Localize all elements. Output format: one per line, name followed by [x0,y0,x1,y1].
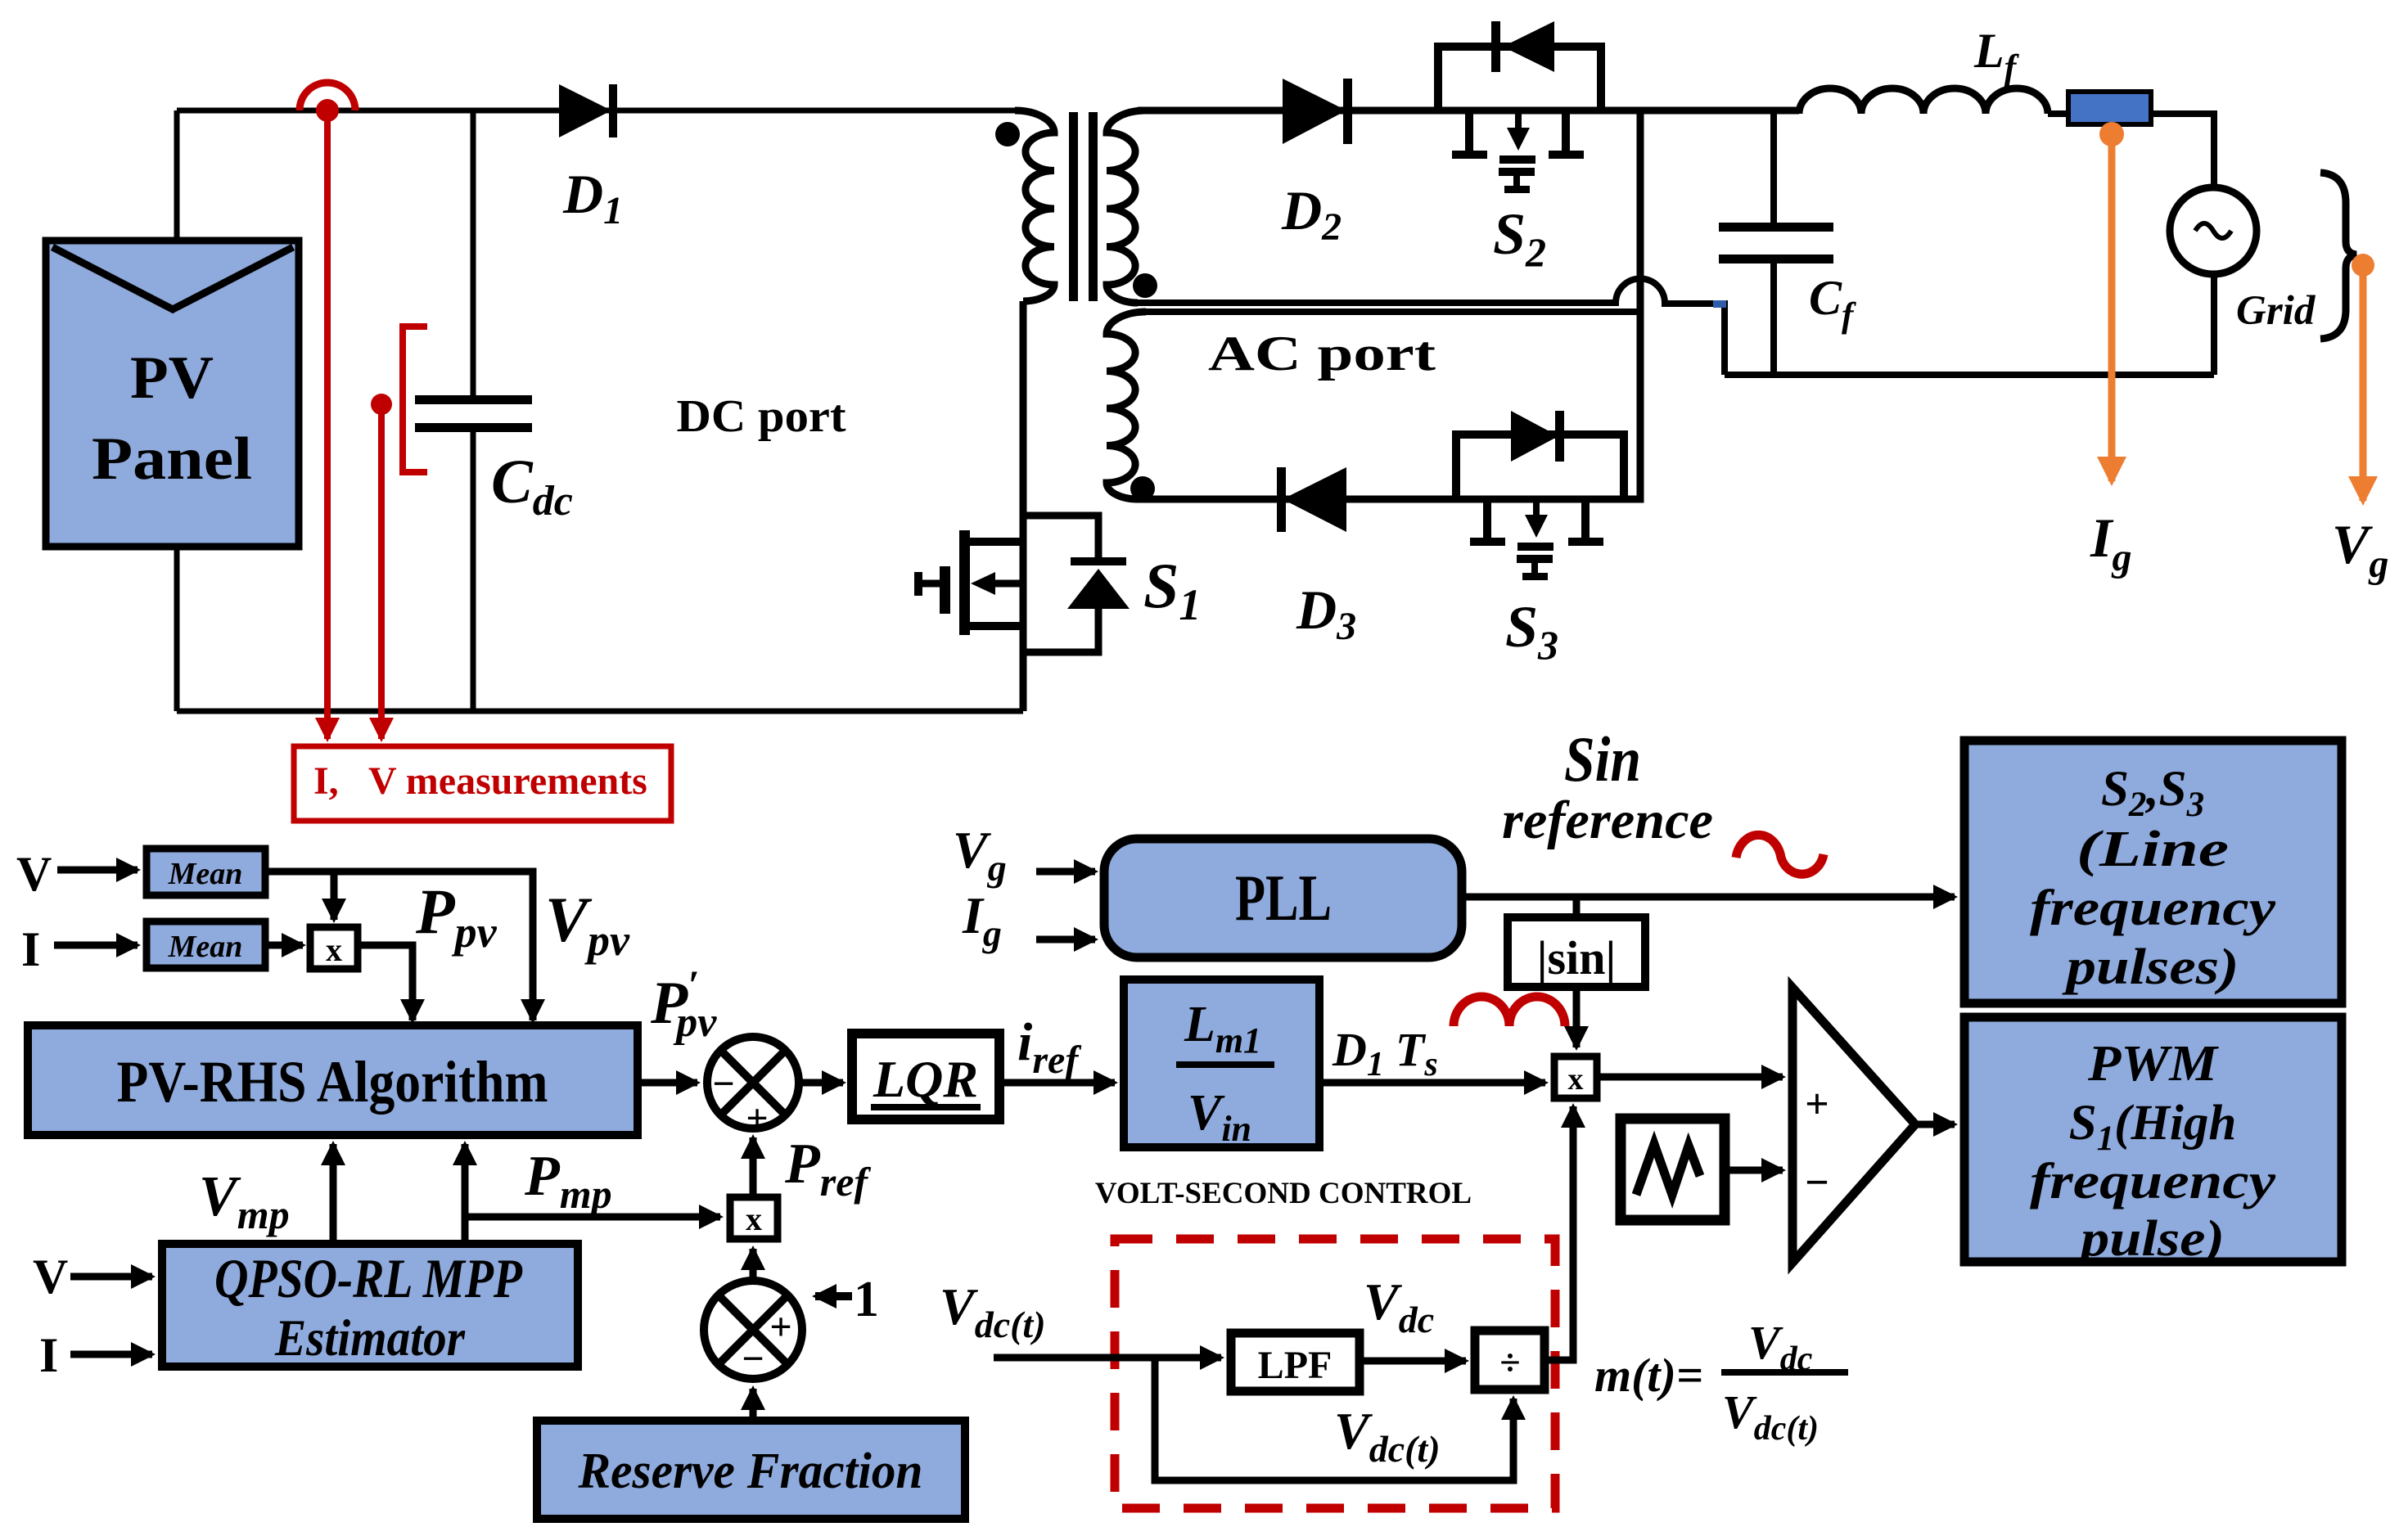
label m(t) equation [1594,1316,1848,1448]
multiplier X2 [730,1197,778,1239]
svg-text:÷: ÷ [1499,1341,1520,1383]
transistor S3 (MOSFET) [1470,502,1603,580]
probe Ig dot (orange) [2099,122,2124,146]
arrow Pmp into X2 [465,1214,720,1221]
wire bottom rail [177,709,1023,714]
arrow PV-RHS to sum1 [638,1079,697,1087]
transformer secondary winding 1 [1107,110,1146,303]
arrow LQR to Lm1/Vin [999,1079,1115,1087]
joint mark (blue) [1713,300,1726,308]
current sensor (blue) [2068,92,2151,124]
block S2 S3 line frequency pulses [1964,741,2342,1003]
block LPF [1231,1333,1360,1391]
wire secondary1 bottom rail with hop [1138,278,1725,375]
arrow Vdc(t) to LPF [994,1354,1221,1362]
svg-text:(Line: (Line [2077,822,2229,877]
arrow sum1 to LQR [799,1079,843,1087]
block LQR [852,1034,999,1119]
svg-text:Sin: Sin [1564,723,1641,795]
svg-text:Panel: Panel [92,426,252,493]
svg-text:−: − [712,1062,734,1106]
probe Vg dot (orange) [2352,254,2374,277]
wire secondary2 top rail [1138,309,1640,315]
comparator triangle [1792,988,1915,1263]
wire Ppv from multiplier [358,945,413,1020]
wire PLL to abs-sin [1573,897,1581,917]
block QPSO-RL MPP Estimator [162,1244,578,1367]
wire primary to S1 drain [1020,301,1027,711]
svg-text:x: x [1568,1062,1584,1097]
capacitor Cf [1719,114,1833,375]
transformer primary winding [1015,110,1054,301]
grid source circle [2170,187,2257,274]
svg-text:QPSO-RL MPP: QPSO-RL MPP [214,1247,522,1309]
block Mean (I) [147,921,265,968]
node V measurement dot (red) [371,394,392,415]
summing junction 1 [707,1037,799,1140]
svg-text:−: − [1805,1160,1829,1206]
svg-text:I: I [39,1328,58,1382]
wire bottom AC rail [1725,372,2214,378]
svg-text:S1(High: S1(High [2069,1096,2237,1158]
arrow constant 1 into sum2 [815,1292,852,1300]
node I measurement dot (red) [316,99,339,122]
block Mean (V) [147,849,265,895]
voltage probe bracket (red) [403,327,427,472]
svg-text:+: + [746,1097,768,1140]
svg-text:Grid: Grid [2236,288,2316,334]
wire AC center vertical [1138,110,1640,499]
wire Lm1/Vin to X3 [1319,1079,1545,1087]
arrow sum2 to X2 [750,1249,757,1281]
sawtooth generator block [1621,1119,1725,1220]
svg-text:Mean: Mean [168,857,243,891]
svg-text:VOLT-SECOND CONTROL: VOLT-SECOND CONTROL [1095,1177,1472,1210]
arrow sawtooth to comparator [1725,1167,1783,1174]
svg-text:Reserve Fraction: Reserve Fraction [578,1444,923,1499]
svg-text:+: + [1805,1081,1829,1128]
transformer secondary 1 dot [1133,273,1157,298]
diode D2 [1283,79,1352,144]
svg-text:pulse): pulse) [2076,1211,2225,1267]
svg-text:I: I [21,922,40,976]
block Lm1/Vin [1124,980,1319,1149]
wire Pmp QPSO to PV-RHS [462,1144,469,1244]
svg-text:m(t)=: m(t)= [1594,1349,1703,1402]
wire top rail PV to transformer [177,108,1015,114]
svg-text:DC port: DC port [677,391,846,442]
arrow Ig (orange) [2108,134,2116,481]
wire I measurement (red) to box [324,110,331,739]
svg-text:1: 1 [854,1272,879,1327]
multiplier X1 [310,927,358,969]
svg-text:AC port: AC port [1208,327,1436,381]
transistor S1 (MOSFET with body diode) [914,516,1130,652]
svg-text:I,: I, [313,759,339,803]
red dashed box [1115,1239,1555,1508]
arrow I to Mean2 [54,942,138,949]
svg-text:LPF: LPF [1258,1344,1333,1387]
svg-text:reference: reference [1502,791,1713,850]
svg-text:PWM: PWM [2087,1036,2219,1092]
arrow Reserve Fraction to sum2 [750,1389,757,1421]
diode D3 [1277,467,1346,532]
svg-text:V: V [33,1250,68,1304]
wire grid source to bottom rail [2211,274,2217,375]
capacitor Cdc [415,110,532,711]
wire AC top rail [1138,107,1799,115]
svg-text:|sin|: |sin| [1537,931,1617,984]
grid brace [2320,173,2356,339]
block PV-RHS Algorithm [28,1025,638,1135]
wire sensor to grid [2151,114,2214,187]
transistor S2 (MOSFET) [1452,114,1584,193]
switch S3 antiparallel diode loop [1456,411,1624,499]
arrow abs-sin to X3 [1573,987,1581,1047]
svg-text:PLL: PLL [1235,863,1332,935]
transformer primary dot [995,122,1020,146]
sine wave mark (red) [1736,835,1824,874]
svg-text:PV-RHS Algorithm: PV-RHS Algorithm [117,1049,548,1115]
arrow X3 to comparator [1597,1074,1783,1081]
wire PV negative lead [174,543,180,711]
arrow X2 to sum1 [750,1137,757,1197]
svg-text:Mean: Mean [168,930,243,964]
summing junction 2 [704,1281,802,1381]
current measure arc (red) [300,83,355,110]
wire Lf to sensor [2048,110,2068,117]
svg-text:−: − [742,1337,764,1381]
block PWM S1 high frequency pulse [1964,1017,2342,1267]
arrow V to QPSO [70,1273,152,1281]
arrow comparator to PWM block [1915,1121,1955,1128]
diode D1 [559,84,617,137]
rectified sine mark (red) [1454,997,1565,1026]
arrow Vg to PLL [1036,868,1095,876]
wire PV positive lead [174,110,180,244]
transformer secondary winding 2 [1107,312,1146,499]
switch S2 antiparallel diode loop [1438,21,1601,110]
svg-text:V measurements: V measurements [368,759,647,803]
wire PLL sin reference to S2S3 block [1462,894,1955,901]
svg-text:Estimator: Estimator [274,1309,466,1367]
svg-text:x: x [326,931,342,968]
svg-text:x: x [746,1200,762,1237]
arrow I to QPSO [70,1351,152,1358]
transformer secondary 2 dot [1130,476,1155,501]
wire Vdc(t) feedback [1155,1358,1513,1480]
inductor Lf [1799,88,2048,114]
svg-text:V: V [16,847,52,901]
arrow LPF to divider [1360,1358,1466,1365]
wire Pmp branch [462,1217,469,1244]
svg-text:frequency: frequency [2030,881,2276,936]
wire Vpv from Mean1 [265,872,533,1020]
svg-text:frequency: frequency [2030,1154,2276,1209]
svg-text:LQR: LQR [873,1050,978,1108]
I V measurements box (red) [294,746,671,821]
block abs sin [1508,917,1645,987]
svg-text:PV: PV [130,345,214,412]
arrow Mean1 branch to multiplier [331,872,338,920]
multiplier X3 [1554,1056,1597,1098]
arrow Mean2 to multiplier [265,942,303,949]
wire divider to X3 [1544,1106,1573,1360]
block Reserve Fraction [537,1421,965,1519]
svg-text:pulses): pulses) [2062,939,2239,995]
transformer core [1069,112,1098,301]
block PLL [1104,839,1462,957]
svg-text:+: + [769,1305,791,1349]
arrow Vg (orange) [2360,265,2367,501]
arrow V to Mean1 [57,867,138,874]
wire V measurement (red) to box [378,404,385,739]
PV panel [46,241,299,547]
divider block [1475,1331,1544,1390]
arrow Vmp QPSO to PV-RHS [330,1144,337,1244]
arrow Ig to PLL [1036,936,1095,944]
